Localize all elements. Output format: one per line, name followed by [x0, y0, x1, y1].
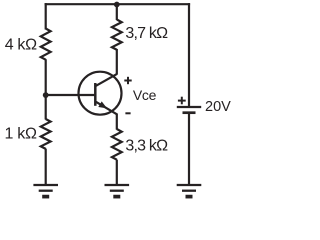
svg-text:1 kΩ: 1 kΩ [5, 126, 37, 143]
label plus at collector (Vce) [124, 77, 131, 84]
resistor 3,7 kΩ zigzag [112, 20, 122, 50]
transistor Q1 collector diagonal [95, 74, 117, 86]
wire left vertical from rail to R 4k [45, 3, 47, 29]
svg-text:3,7 kΩ: 3,7 kΩ [125, 25, 168, 42]
wire R 4k bottom to base node [45, 59, 47, 96]
node junction dot top rail [114, 2, 120, 8]
svg-text:Vce: Vce [133, 87, 157, 103]
battery V1 plus sign [178, 97, 186, 105]
battery V1 positive plate [177, 106, 201, 108]
transistor Q1 emitter diagonal [95, 101, 117, 114]
ground left [33, 185, 58, 197]
wire base horizontal to transistor [46, 94, 96, 96]
node junction dot base [43, 92, 49, 98]
ground middle [105, 185, 130, 197]
transistor Q1 emitter arrowhead [98, 101, 107, 108]
wire top rail [45, 3, 191, 5]
resistor 1 kΩ zigzag [41, 119, 51, 149]
resistor 4 kΩ zigzag [41, 29, 51, 60]
battery V1 negative plate [183, 111, 196, 114]
label minus at emitter (Vce) [125, 112, 130, 114]
transistor Q1 base bar [94, 83, 97, 106]
resistor 3,3 kΩ zigzag [112, 129, 122, 160]
wire battery to ground right [188, 112, 190, 185]
svg-text:20V: 20V [205, 99, 231, 115]
wire R 1k to ground left [45, 149, 47, 185]
wire R 3,3k to ground middle [116, 160, 118, 185]
wire top dot to R 3,7k [116, 4, 118, 20]
wire emitter vertical to R 3,3k [116, 114, 118, 130]
svg-text:4 kΩ: 4 kΩ [5, 37, 37, 54]
wire collector vertical to R 3,7k [116, 49, 118, 75]
svg-text:3,3 kΩ: 3,3 kΩ [125, 138, 168, 155]
transistor Q1 circle [79, 72, 122, 115]
wire base node to R 1k [45, 95, 47, 120]
ground right [177, 185, 202, 197]
wire right vertical from rail to battery [188, 3, 190, 106]
